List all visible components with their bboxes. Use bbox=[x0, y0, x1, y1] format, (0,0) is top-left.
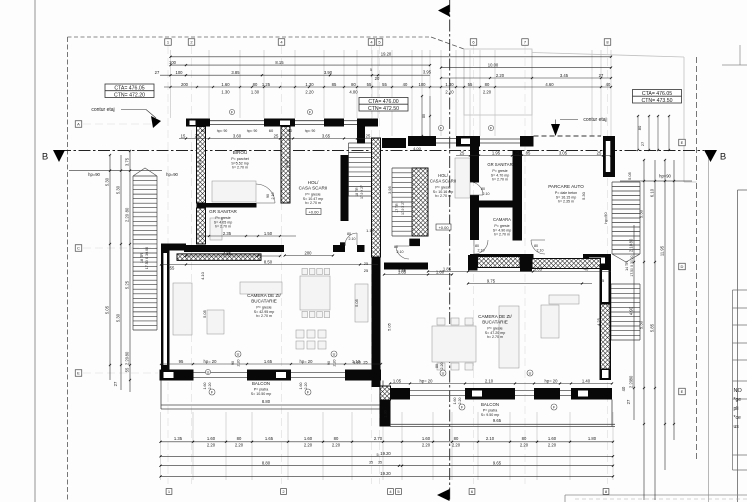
svg-text:25: 25 bbox=[364, 268, 369, 273]
svg-text:1.30: 1.30 bbox=[384, 410, 388, 417]
svg-text:contur etaj: contur etaj bbox=[583, 117, 606, 123]
svg-text:A: A bbox=[77, 122, 80, 127]
svg-text:100: 100 bbox=[169, 60, 177, 65]
svg-text:2.10: 2.10 bbox=[349, 237, 356, 241]
svg-text:5: 5 bbox=[370, 68, 372, 72]
svg-text:2.20: 2.20 bbox=[483, 90, 492, 95]
svg-text:40: 40 bbox=[288, 128, 293, 133]
svg-text:2.20: 2.20 bbox=[333, 360, 337, 367]
svg-text:5.05: 5.05 bbox=[354, 298, 359, 307]
svg-text:80: 80 bbox=[485, 82, 490, 87]
svg-text:17.9 X 27: 17.9 X 27 bbox=[360, 185, 364, 199]
svg-text:h= 2.70 m: h= 2.70 m bbox=[215, 225, 231, 229]
svg-text:80: 80 bbox=[422, 114, 426, 118]
svg-text:U: U bbox=[237, 353, 240, 357]
svg-text:11.95: 11.95 bbox=[660, 245, 665, 256]
svg-text:1.30: 1.30 bbox=[251, 90, 260, 95]
svg-text:3.85: 3.85 bbox=[231, 70, 240, 75]
svg-text:2.10: 2.10 bbox=[397, 250, 404, 254]
svg-text:HOL/: HOL/ bbox=[438, 173, 449, 178]
svg-text:2.10: 2.10 bbox=[537, 249, 544, 253]
svg-text:9.75: 9.75 bbox=[487, 278, 496, 283]
svg-text:2.20: 2.20 bbox=[496, 73, 505, 78]
svg-text:60: 60 bbox=[201, 128, 206, 133]
svg-text:5.30: 5.30 bbox=[116, 313, 121, 322]
svg-text:80: 80 bbox=[454, 436, 459, 441]
svg-text:*ce: *ce bbox=[734, 415, 741, 421]
svg-text:hp=90: hp=90 bbox=[166, 172, 178, 177]
svg-text:1.60: 1.60 bbox=[207, 436, 216, 441]
svg-text:17 TR: 17 TR bbox=[395, 203, 399, 213]
svg-text:U: U bbox=[333, 353, 336, 357]
svg-text:GR SANITAR: GR SANITAR bbox=[487, 162, 512, 167]
svg-text:CTA= 476.05: CTA= 476.05 bbox=[114, 85, 144, 91]
svg-text:4.60: 4.60 bbox=[545, 82, 554, 87]
svg-text:40: 40 bbox=[584, 266, 589, 271]
svg-text:40: 40 bbox=[606, 82, 611, 87]
svg-text:1.65: 1.65 bbox=[264, 359, 273, 364]
svg-text:us: us bbox=[734, 424, 740, 430]
svg-text:PARCARE AUTO: PARCARE AUTO bbox=[548, 184, 584, 189]
svg-text:HOL/: HOL/ bbox=[308, 180, 319, 185]
svg-text:2.20: 2.20 bbox=[125, 213, 130, 222]
svg-text:1.85: 1.85 bbox=[443, 266, 452, 271]
svg-text:80: 80 bbox=[334, 436, 339, 441]
svg-text:35: 35 bbox=[378, 461, 382, 465]
svg-text:3.50: 3.50 bbox=[284, 159, 289, 168]
svg-text:hp=90: hp=90 bbox=[659, 174, 671, 179]
svg-text:2.20: 2.20 bbox=[520, 443, 529, 448]
svg-text:1.60: 1.60 bbox=[422, 436, 431, 441]
svg-text:hp= 20: hp= 20 bbox=[300, 359, 314, 364]
svg-text:h= 2.70 m: h= 2.70 m bbox=[492, 178, 508, 182]
svg-text:80: 80 bbox=[253, 82, 258, 87]
svg-text:19.20: 19.20 bbox=[381, 52, 392, 57]
svg-text:5.05: 5.05 bbox=[105, 305, 110, 314]
svg-text:hp= 90: hp= 90 bbox=[247, 129, 258, 133]
svg-text:CTA= 476.00: CTA= 476.00 bbox=[368, 99, 398, 105]
svg-text:6.10: 6.10 bbox=[650, 188, 655, 197]
svg-text:1.60: 1.60 bbox=[304, 436, 313, 441]
svg-text:1.60: 1.60 bbox=[453, 398, 457, 405]
svg-text:h= 2.70 m: h= 2.70 m bbox=[256, 314, 272, 318]
svg-text:U: U bbox=[442, 372, 445, 376]
svg-text:CTN= 472.20: CTN= 472.20 bbox=[114, 92, 145, 98]
svg-text:1.35: 1.35 bbox=[174, 436, 183, 441]
svg-text:U: U bbox=[529, 372, 532, 376]
svg-text:27: 27 bbox=[599, 73, 604, 78]
svg-text:1.05: 1.05 bbox=[393, 378, 402, 383]
svg-text:E: E bbox=[681, 389, 684, 394]
svg-text:95: 95 bbox=[179, 359, 184, 364]
svg-text:hp=90: hp=90 bbox=[88, 172, 100, 177]
svg-text:1.80: 1.80 bbox=[588, 436, 597, 441]
svg-text:9.65: 9.65 bbox=[493, 418, 502, 423]
svg-text:GR SANITAR: GR SANITAR bbox=[209, 209, 237, 214]
svg-text:2.20: 2.20 bbox=[235, 443, 244, 448]
svg-text:S= 10.50 mp: S= 10.50 mp bbox=[251, 392, 271, 396]
svg-text:80: 80 bbox=[522, 436, 527, 441]
svg-text:hp= 20: hp= 20 bbox=[545, 378, 559, 383]
svg-text:200: 200 bbox=[181, 82, 189, 87]
svg-text:17.50 X 30.00: 17.50 X 30.00 bbox=[145, 247, 149, 269]
svg-text:2.10: 2.10 bbox=[629, 243, 634, 252]
svg-text:9.65: 9.65 bbox=[493, 461, 502, 466]
svg-text:2.20: 2.20 bbox=[458, 398, 462, 405]
svg-text:2.20: 2.20 bbox=[304, 443, 313, 448]
svg-text:19.20: 19.20 bbox=[380, 471, 391, 476]
svg-text:3.65: 3.65 bbox=[322, 133, 331, 138]
svg-text:2.10: 2.10 bbox=[485, 378, 494, 383]
svg-text:25: 25 bbox=[600, 278, 605, 283]
svg-text:10.00: 10.00 bbox=[488, 62, 499, 67]
svg-text:h= 2.35 m: h= 2.35 m bbox=[558, 200, 574, 204]
svg-text:3.95: 3.95 bbox=[423, 70, 432, 75]
svg-text:85: 85 bbox=[332, 82, 337, 87]
svg-text:4.10: 4.10 bbox=[200, 271, 205, 280]
svg-text:1.10: 1.10 bbox=[352, 359, 361, 364]
svg-text:CASA SCARII: CASA SCARII bbox=[299, 186, 328, 191]
svg-text:h= 2.70 m: h= 2.70 m bbox=[435, 194, 451, 198]
svg-text:5.05: 5.05 bbox=[202, 309, 207, 318]
svg-text:5.30: 5.30 bbox=[581, 191, 586, 200]
svg-text:BALCON: BALCON bbox=[481, 402, 499, 407]
svg-text:3.95: 3.95 bbox=[387, 185, 392, 194]
svg-text:5.30: 5.30 bbox=[105, 177, 110, 186]
svg-text:D: D bbox=[681, 264, 684, 269]
svg-text:B: B bbox=[42, 152, 48, 163]
svg-text:2.20: 2.20 bbox=[422, 443, 431, 448]
svg-text:25: 25 bbox=[597, 150, 602, 155]
svg-text:BALCON: BALCON bbox=[252, 381, 270, 386]
svg-text:2.20: 2.20 bbox=[440, 363, 444, 370]
svg-text:85: 85 bbox=[526, 150, 531, 155]
svg-text:17.9 X 27: 17.9 X 27 bbox=[401, 201, 405, 215]
svg-text:1.65: 1.65 bbox=[265, 436, 274, 441]
svg-text:2.20: 2.20 bbox=[452, 443, 461, 448]
svg-text:19.20: 19.20 bbox=[380, 451, 391, 456]
svg-text:4.25: 4.25 bbox=[596, 317, 601, 326]
svg-text:2.20: 2.20 bbox=[125, 356, 130, 365]
svg-text:1.30: 1.30 bbox=[305, 82, 314, 87]
svg-text:17.50 X 30.00: 17.50 X 30.00 bbox=[630, 255, 634, 276]
svg-text:15: 15 bbox=[181, 133, 186, 138]
svg-text:27: 27 bbox=[640, 141, 645, 146]
svg-text:1.25: 1.25 bbox=[262, 82, 271, 87]
svg-text:25: 25 bbox=[364, 261, 369, 266]
svg-text:4.00: 4.00 bbox=[349, 90, 358, 95]
svg-text:2.20: 2.20 bbox=[629, 379, 634, 388]
svg-text:25: 25 bbox=[195, 133, 200, 138]
svg-text:CASA SCARII: CASA SCARII bbox=[430, 179, 456, 184]
svg-text:35: 35 bbox=[369, 461, 373, 465]
svg-text:3.20: 3.20 bbox=[197, 159, 202, 168]
svg-text:+0.00: +0.00 bbox=[438, 225, 449, 230]
svg-text:5.25: 5.25 bbox=[125, 280, 130, 289]
svg-text:80: 80 bbox=[534, 244, 538, 248]
svg-text:100: 100 bbox=[176, 70, 184, 75]
svg-text:BUCATARIE: BUCATARIE bbox=[251, 299, 277, 304]
svg-text:2.20: 2.20 bbox=[305, 90, 314, 95]
svg-text:1.60: 1.60 bbox=[221, 82, 230, 87]
svg-text:2.20: 2.20 bbox=[332, 443, 341, 448]
svg-text:CTA= 476.05: CTA= 476.05 bbox=[642, 91, 672, 97]
svg-text:2.10: 2.10 bbox=[483, 192, 490, 196]
svg-text:hp= 90: hp= 90 bbox=[217, 129, 228, 133]
svg-text:h= 2.70 m: h= 2.70 m bbox=[487, 335, 503, 339]
svg-text:1.10: 1.10 bbox=[366, 228, 375, 233]
svg-text:8.50: 8.50 bbox=[264, 259, 273, 264]
svg-text:80: 80 bbox=[475, 244, 479, 248]
svg-text:80: 80 bbox=[125, 207, 130, 212]
svg-text:4.00: 4.00 bbox=[413, 146, 422, 151]
svg-text:20: 20 bbox=[375, 76, 380, 81]
svg-text:80: 80 bbox=[394, 245, 398, 249]
svg-text:18 TR: 18 TR bbox=[355, 187, 359, 197]
svg-text:55: 55 bbox=[367, 82, 372, 87]
svg-text:2.20: 2.20 bbox=[237, 360, 241, 367]
svg-text:1.60: 1.60 bbox=[548, 436, 557, 441]
svg-text:hp= 20: hp= 20 bbox=[420, 378, 434, 383]
svg-text:E: E bbox=[681, 140, 684, 145]
svg-text:25: 25 bbox=[366, 133, 371, 138]
svg-text:+0.00: +0.00 bbox=[308, 209, 319, 214]
svg-text:1.30: 1.30 bbox=[445, 82, 454, 87]
svg-text:h= 2.70 m: h= 2.70 m bbox=[305, 201, 321, 205]
svg-text:1.50: 1.50 bbox=[264, 231, 273, 236]
svg-text:2.20: 2.20 bbox=[548, 443, 557, 448]
svg-text:pli: pli bbox=[734, 406, 739, 412]
svg-text:25: 25 bbox=[274, 133, 279, 138]
svg-text:27: 27 bbox=[113, 381, 118, 386]
svg-text:E: E bbox=[77, 371, 80, 376]
svg-text:3.45: 3.45 bbox=[560, 73, 569, 78]
svg-text:55: 55 bbox=[170, 265, 175, 270]
svg-text:CAMERA DE ZI/: CAMERA DE ZI/ bbox=[478, 314, 512, 319]
svg-text:2.20: 2.20 bbox=[445, 90, 454, 95]
svg-text:27: 27 bbox=[626, 399, 631, 404]
svg-text:BIROU: BIROU bbox=[233, 150, 248, 155]
svg-text:3.90: 3.90 bbox=[324, 70, 333, 75]
svg-text:80: 80 bbox=[637, 125, 642, 130]
svg-text:5: 5 bbox=[376, 453, 378, 457]
svg-text:5.05: 5.05 bbox=[387, 322, 392, 331]
svg-text:5.30: 5.30 bbox=[116, 185, 121, 194]
svg-text:80: 80 bbox=[351, 82, 356, 87]
svg-text:1.80: 1.80 bbox=[436, 269, 445, 274]
svg-text:8.15: 8.15 bbox=[275, 60, 284, 65]
svg-text:55: 55 bbox=[468, 82, 473, 87]
svg-text:18 TR: 18 TR bbox=[140, 253, 144, 264]
svg-text:2.10: 2.10 bbox=[271, 193, 275, 200]
svg-text:CTN= 473.50: CTN= 473.50 bbox=[642, 98, 673, 104]
svg-text:25: 25 bbox=[460, 150, 465, 155]
svg-text:2.70: 2.70 bbox=[374, 436, 383, 441]
svg-text:CTN= 472.50: CTN= 472.50 bbox=[368, 106, 399, 112]
svg-text:90: 90 bbox=[327, 361, 331, 365]
svg-text:U: U bbox=[207, 371, 210, 375]
svg-text:80: 80 bbox=[481, 187, 485, 191]
svg-text:80: 80 bbox=[237, 436, 242, 441]
svg-text:55: 55 bbox=[125, 367, 130, 372]
svg-text:B: B bbox=[720, 152, 726, 163]
svg-text:h= 2.70 m: h= 2.70 m bbox=[494, 233, 510, 237]
svg-text:80: 80 bbox=[435, 364, 439, 368]
svg-text:3.75: 3.75 bbox=[125, 157, 130, 166]
svg-text:80: 80 bbox=[125, 351, 130, 356]
svg-text:2.35: 2.35 bbox=[223, 231, 232, 236]
svg-text:5.65: 5.65 bbox=[534, 266, 543, 271]
svg-text:40: 40 bbox=[621, 386, 626, 391]
svg-text:4.85: 4.85 bbox=[223, 251, 232, 256]
svg-text:1.85: 1.85 bbox=[398, 268, 407, 273]
svg-text:3.05: 3.05 bbox=[559, 150, 568, 155]
svg-text:90: 90 bbox=[266, 194, 270, 198]
svg-text:2.20: 2.20 bbox=[207, 443, 216, 448]
svg-text:90: 90 bbox=[231, 361, 235, 365]
svg-text:2.20: 2.20 bbox=[304, 383, 308, 390]
svg-text:1.30: 1.30 bbox=[221, 90, 230, 95]
svg-text:1.95: 1.95 bbox=[492, 150, 501, 155]
svg-text:80: 80 bbox=[629, 375, 634, 380]
svg-text:1.60: 1.60 bbox=[203, 383, 207, 390]
svg-text:S= 9.50 mp: S= 9.50 mp bbox=[481, 413, 499, 417]
svg-text:27: 27 bbox=[155, 70, 160, 75]
svg-text:hp= 90: hp= 90 bbox=[305, 129, 316, 133]
svg-text:40: 40 bbox=[403, 82, 408, 87]
svg-text:hp=90: hp=90 bbox=[603, 212, 608, 224]
svg-text:CAMERA DE ZI/: CAMERA DE ZI/ bbox=[247, 293, 281, 298]
svg-text:8.80: 8.80 bbox=[262, 461, 271, 466]
svg-text:60: 60 bbox=[269, 128, 274, 133]
svg-text:CAMARA: CAMARA bbox=[493, 217, 511, 222]
svg-text:BUCATARIE: BUCATARIE bbox=[482, 320, 508, 325]
svg-text:100: 100 bbox=[419, 82, 427, 87]
svg-text:8.80: 8.80 bbox=[262, 399, 271, 404]
svg-text:C: C bbox=[77, 246, 80, 251]
svg-text:hp= 20: hp= 20 bbox=[204, 359, 218, 364]
svg-text:3.60: 3.60 bbox=[233, 133, 242, 138]
svg-text:55: 55 bbox=[382, 82, 387, 87]
svg-text:5.05: 5.05 bbox=[627, 171, 632, 180]
svg-text:80: 80 bbox=[347, 232, 351, 236]
svg-text:2.10: 2.10 bbox=[478, 249, 485, 253]
svg-text:NO: NO bbox=[734, 388, 743, 394]
svg-text:14 TR: 14 TR bbox=[625, 261, 629, 271]
svg-text:h= 2.70 m: h= 2.70 m bbox=[232, 166, 248, 170]
svg-text:1.40: 1.40 bbox=[582, 378, 591, 383]
svg-text:200: 200 bbox=[305, 250, 313, 255]
svg-text:1.60: 1.60 bbox=[299, 383, 303, 390]
svg-text:2.10: 2.10 bbox=[486, 436, 495, 441]
svg-text:5.85: 5.85 bbox=[650, 323, 655, 332]
svg-text:*ge: *ge bbox=[734, 397, 742, 403]
svg-text:contur etaj: contur etaj bbox=[91, 107, 114, 113]
svg-text:25: 25 bbox=[515, 150, 520, 155]
svg-text:2.20: 2.20 bbox=[208, 383, 212, 390]
